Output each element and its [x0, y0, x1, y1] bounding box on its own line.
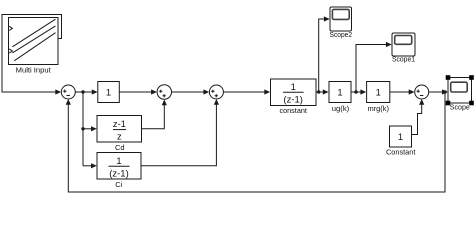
- subsystem Multi Input: [9, 18, 59, 65]
- wire Constant to Sum4 bottom: [412, 104, 422, 134]
- svg-text:Scope1: Scope1: [392, 54, 415, 63]
- wire branch up to Scope1: [356, 45, 386, 93]
- wire constant to ug(k): [316, 91, 323, 93]
- svg-text:1: 1: [337, 86, 342, 97]
- wire Ci output to Sum3 bottom: [141, 104, 216, 166]
- svg-text:Multi Input: Multi Input: [16, 65, 52, 74]
- wire Sum2 to Sum3: [172, 91, 204, 93]
- svg-text:1: 1: [291, 81, 296, 92]
- scope block Scope2: [330, 7, 352, 31]
- scope block Scope1: [392, 33, 415, 56]
- sum S4: [415, 85, 429, 99]
- junction node feedback takeoff: [443, 90, 446, 93]
- scope block Scope (selected): [448, 78, 472, 104]
- constant block Constant value 1: [390, 126, 412, 147]
- wire branch into Cd: [83, 128, 91, 130]
- wire mrg(k) to Sum4: [390, 91, 409, 93]
- sum S2: [157, 85, 171, 99]
- svg-text:Scope: Scope: [450, 102, 470, 111]
- wire Multi Input output to Sum1: [2, 15, 62, 93]
- wire Sum3 to constant block: [223, 91, 264, 93]
- transfer fcn block constant 1/(z-1): [271, 79, 317, 106]
- svg-text:Scope2: Scope2: [330, 30, 353, 39]
- svg-text:(z-1): (z-1): [109, 168, 129, 179]
- wire ug(k) to mrg(k): [351, 91, 361, 93]
- svg-text:Ci: Ci: [115, 180, 122, 189]
- svg-text:z-1: z-1: [113, 118, 126, 129]
- svg-text:ug(k): ug(k): [332, 104, 350, 113]
- wire Gain1 to Sum2: [119, 91, 151, 93]
- junction node at Cd feed: [81, 127, 84, 130]
- gain block mrg(k) value 1: [367, 82, 390, 103]
- wire Cd output to Sum2 bottom: [142, 105, 165, 129]
- svg-text:1: 1: [116, 155, 121, 166]
- wire S1 to Gain1: [75, 91, 92, 93]
- svg-text:Cd: Cd: [115, 143, 125, 152]
- transfer fcn block Ci 1/(z-1): [97, 153, 141, 180]
- svg-text:mrg(k): mrg(k): [367, 104, 389, 113]
- wire branch down to Cd/Ci: [82, 92, 84, 166]
- gain block G1 value 1: [98, 82, 120, 103]
- sum S1: [61, 85, 75, 99]
- gain block ug(k) value 1: [329, 82, 351, 103]
- wire feedback loop to Sum1 bottom: [68, 92, 445, 192]
- wire branch up to Scope2: [319, 19, 325, 92]
- transfer fcn block Cd (z-1)/z: [97, 116, 142, 143]
- svg-text:1: 1: [106, 86, 111, 97]
- junction node at branch to Cd/Ci: [81, 90, 84, 93]
- junction node to Scope1: [354, 90, 357, 93]
- svg-text:constant: constant: [279, 106, 307, 115]
- wire Sum4 to Scope: [429, 91, 443, 93]
- svg-text:z: z: [117, 131, 122, 142]
- svg-text:1: 1: [376, 86, 381, 97]
- svg-text:(z-1): (z-1): [283, 93, 303, 104]
- junction node to Scope2: [317, 90, 320, 93]
- wire branch into Ci: [83, 165, 91, 167]
- svg-text:1: 1: [398, 131, 403, 142]
- sum S3: [209, 85, 223, 99]
- input port mark 2: [9, 49, 12, 53]
- input port mark 1: [9, 26, 12, 30]
- svg-text:Constant: Constant: [386, 147, 416, 156]
- selection handles of Scope: [446, 75, 474, 105]
